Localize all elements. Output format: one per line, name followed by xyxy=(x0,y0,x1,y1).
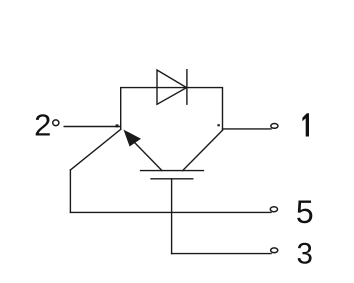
svg-text:5: 5 xyxy=(296,194,314,230)
svg-text:2: 2 xyxy=(34,108,51,143)
svg-text:3: 3 xyxy=(296,238,312,271)
